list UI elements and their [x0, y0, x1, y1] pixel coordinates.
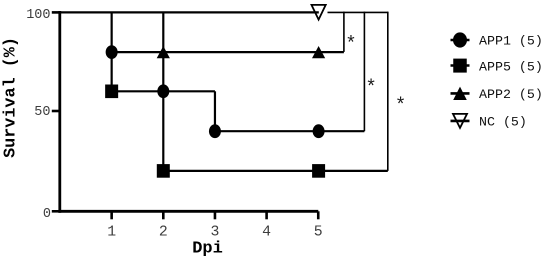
- svg-text:Dpi: Dpi: [192, 240, 223, 257]
- svg-text:*: *: [365, 76, 376, 98]
- svg-text:APP1 (5): APP1 (5): [479, 34, 543, 49]
- svg-text:NC (5): NC (5): [479, 114, 527, 129]
- svg-text:*: *: [345, 33, 356, 55]
- svg-text:APP2 (5): APP2 (5): [479, 87, 543, 102]
- svg-text:50: 50: [34, 105, 50, 120]
- svg-text:3: 3: [211, 225, 220, 241]
- svg-text:100: 100: [26, 8, 50, 23]
- svg-text:5: 5: [314, 225, 323, 241]
- svg-text:*: *: [395, 95, 406, 117]
- svg-text:APP5 (5): APP5 (5): [479, 59, 543, 74]
- svg-text:2: 2: [159, 225, 168, 241]
- svg-text:Survival (%): Survival (%): [2, 37, 21, 158]
- svg-text:0: 0: [43, 207, 51, 222]
- svg-text:1: 1: [107, 225, 116, 241]
- svg-text:4: 4: [262, 225, 271, 241]
